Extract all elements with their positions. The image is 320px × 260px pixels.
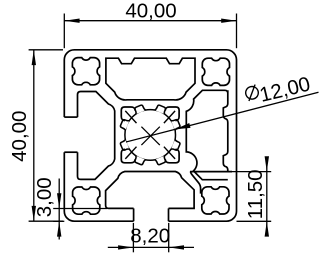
dimension 8,20 arrow right — [169, 245, 184, 249]
dimension 3,00 dimension line — [58, 179, 60, 240]
dimension 11,50 dimension line — [266, 157, 268, 237]
wire bottom cavity boundary — [106, 172, 195, 209]
dimension 40,00 top extension line left — [63, 14, 65, 49]
wire boss corner bracket bottom-right — [165, 149, 179, 163]
wire groove mark bottom-right — [164, 147, 175, 159]
svg-text:11,50: 11,50 — [244, 169, 267, 219]
wire groove mark top-right — [164, 111, 175, 123]
dimension 3,00 arrow lower — [57, 221, 61, 236]
wire boss corner bracket top-right — [165, 107, 179, 121]
hole clover top-left — [72, 58, 99, 85]
node center mark X stroke 2 — [141, 127, 159, 145]
svg-text:40,00: 40,00 — [8, 111, 31, 162]
wire left cavity boundary — [78, 92, 115, 180]
wire left slot neck bottom wall — [64, 151, 77, 153]
dimension 40,00 top extension line right — [236, 14, 238, 49]
wire bottom-right shelf line — [190, 171, 232, 173]
dimension 11,50 arrow upper — [265, 156, 269, 171]
dimension 8,20 extension line right — [168, 223, 170, 252]
hole center bore circle+flutes — [125, 110, 176, 161]
wire bottom slot neck right wall — [168, 208, 170, 221]
dimension 8,20 dimension line — [108, 246, 194, 248]
wire groove mark bottom-left — [125, 147, 136, 159]
wire boss corner bracket bottom-left — [121, 149, 135, 163]
dimension 40,00 left dimension line — [33, 50, 35, 221]
dimension 40,00 left extension line top — [29, 49, 63, 51]
svg-text:40,00: 40,00 — [125, 0, 176, 22]
wire right cavity boundary — [186, 90, 228, 179]
wire bottom slot neck left wall — [133, 208, 135, 221]
dimension diameter leader arrow — [175, 123, 190, 129]
wire outer frame bottom-left run — [64, 152, 133, 221]
dimension 3,00 arrow upper — [57, 193, 61, 208]
dimension 11,50 arrow lower — [265, 221, 269, 236]
dimension 11,50 extension line bottom — [237, 220, 272, 222]
node center mark X stroke 1 — [141, 127, 159, 145]
dimension 8,20 extension line left — [132, 223, 134, 252]
dimension 40,00 top dimension line — [64, 20, 236, 22]
dimension 40,00 top arrow right — [221, 19, 236, 23]
dimension 40,00 left arrow top — [32, 50, 36, 65]
dimension diameter symbol — [244, 84, 260, 101]
dimension 11,50 extension line top — [232, 171, 271, 173]
dimension 40,00 top arrow left — [64, 19, 79, 23]
dimension 40,00 left arrow bottom — [32, 206, 36, 221]
svg-text:3,00: 3,00 — [33, 177, 56, 217]
wire bottom-right channel edge — [190, 172, 200, 194]
wire left slot neck top wall — [64, 116, 77, 118]
dimension 8,20 arrow left — [118, 245, 133, 249]
hole clover bottom-left — [73, 187, 100, 214]
dimension 3,00 extension line top — [53, 208, 107, 210]
wire outer frame right+top run — [64, 50, 236, 221]
hole clover bottom-right — [202, 187, 229, 214]
wire boss corner bracket top-left — [121, 107, 135, 121]
hole clover top-right — [202, 58, 229, 85]
dimension diameter leader line — [126, 92, 319, 142]
dimension 40,00 left extension line bottom — [29, 220, 63, 222]
svg-text:8,20: 8,20 — [130, 225, 170, 248]
wire top cavity boundary — [106, 58, 195, 100]
dimension 3,00 extension line bottom — [53, 220, 64, 222]
wire groove mark top-left — [125, 111, 136, 123]
